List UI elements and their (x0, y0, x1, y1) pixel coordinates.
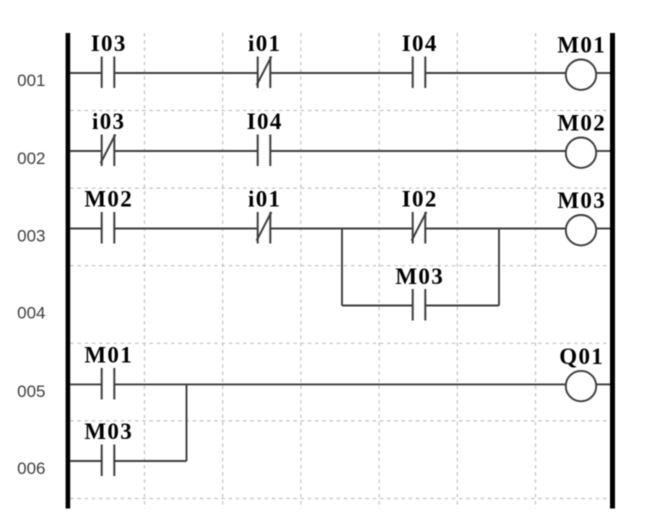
svg-text:M03: M03 (84, 419, 133, 444)
svg-text:M01: M01 (84, 342, 133, 367)
svg-text:004: 004 (17, 303, 45, 322)
svg-text:I04: I04 (402, 31, 438, 56)
svg-text:I04: I04 (247, 109, 283, 134)
svg-text:i01: i01 (248, 187, 281, 212)
svg-text:I02: I02 (402, 187, 438, 212)
svg-text:006: 006 (17, 459, 45, 478)
svg-text:i03: i03 (92, 109, 125, 134)
svg-text:M02: M02 (84, 187, 133, 212)
svg-text:i01: i01 (248, 31, 281, 56)
svg-text:M02: M02 (557, 111, 606, 136)
svg-text:M01: M01 (557, 33, 606, 58)
svg-text:I03: I03 (91, 31, 127, 56)
svg-text:Q01: Q01 (559, 344, 604, 369)
svg-text:002: 002 (17, 149, 45, 168)
svg-text:M03: M03 (395, 264, 444, 289)
svg-text:003: 003 (17, 226, 45, 245)
svg-text:001: 001 (17, 71, 45, 90)
svg-text:M03: M03 (557, 188, 606, 213)
svg-text:005: 005 (17, 382, 45, 401)
